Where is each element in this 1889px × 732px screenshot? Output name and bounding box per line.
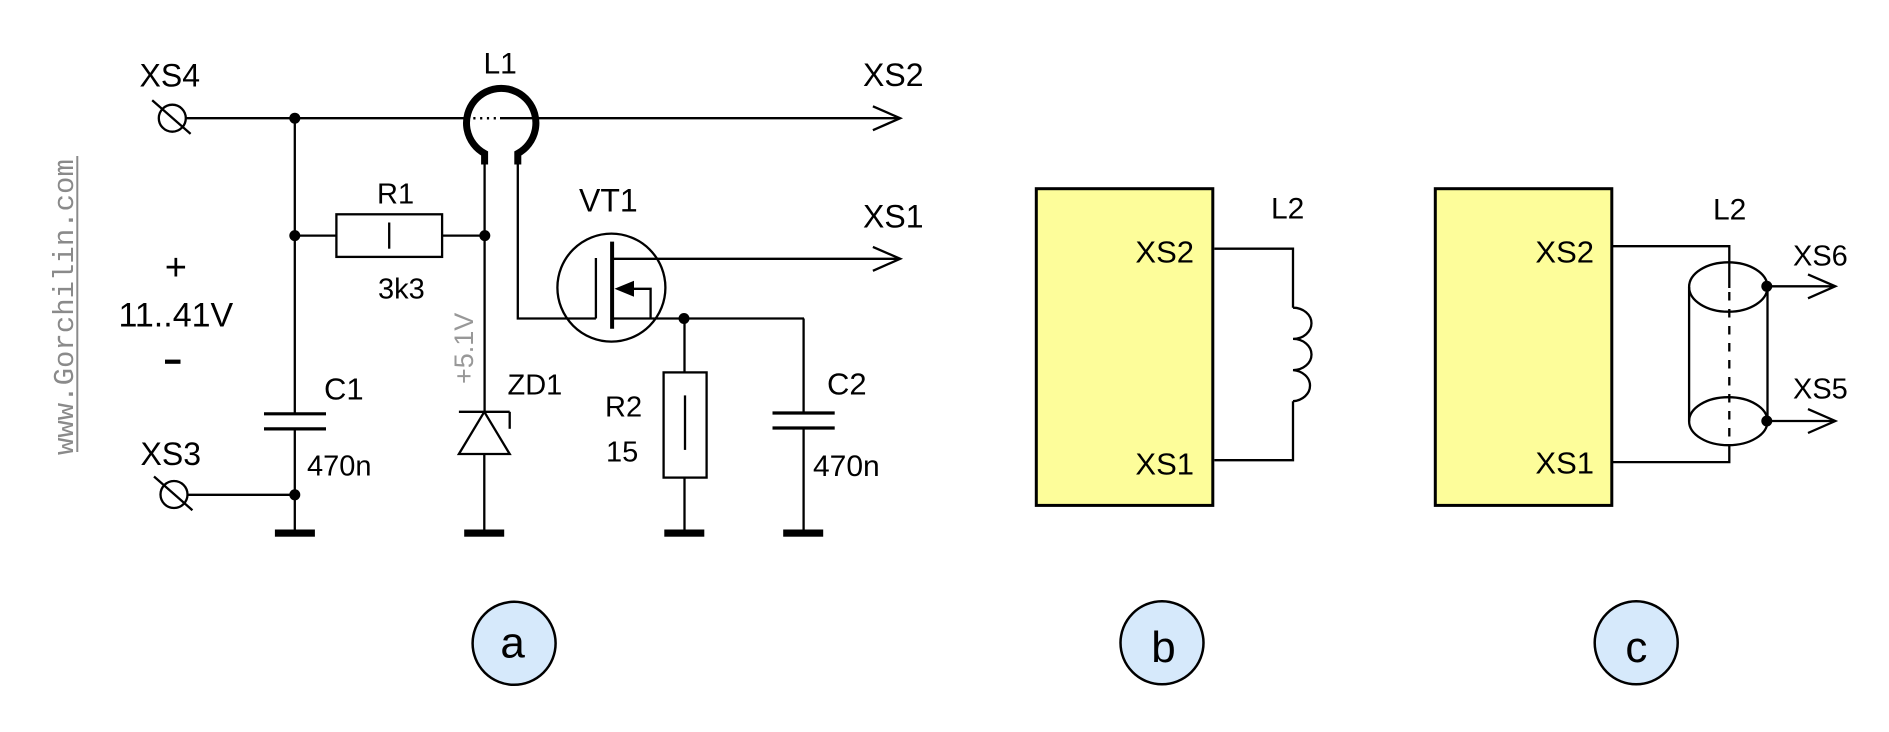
svg-text:XS3: XS3 [141,436,201,472]
wire L1 right leg to gate and on to C2 [518,158,596,319]
svg-text:VT1: VT1 [579,183,638,219]
connector XS3 [141,436,295,510]
connector XS4 [140,58,200,134]
svg-text:L1: L1 [484,48,517,81]
connector XS2 arrow [863,57,923,130]
ground C2 [783,530,823,537]
connector XS6 arrow [1767,241,1848,299]
svg-text:ZD1: ZD1 [508,370,563,402]
ground R2 [664,530,704,537]
label c [1595,601,1678,684]
zener diode ZD1 [459,370,562,530]
ground ZD1 [464,530,504,537]
ground C1 [275,530,315,537]
svg-text:XS1: XS1 [1135,447,1194,482]
svg-text:11..41V: 11..41V [119,296,234,334]
module box c [1435,189,1612,506]
svg-text:a: a [500,619,525,668]
svg-text:+: + [165,247,187,289]
node junction XS6 [1761,281,1772,292]
node junction R1 right [479,230,490,241]
wire top rail XS4 to XS2 [186,117,898,119]
wire left vertical to C1 [294,118,296,414]
svg-text:XS5: XS5 [1793,374,1848,406]
svg-text:C2: C2 [827,367,867,402]
capacitor C2 [773,319,880,530]
capacitor C1 [264,371,372,529]
watermark www.Gorchilin.com [49,156,82,455]
svg-text:C1: C1 [324,371,364,406]
module box b [1036,189,1213,506]
svg-text:XS2: XS2 [863,57,923,93]
node junction R1 left [289,230,300,241]
svg-text:L2: L2 [1713,194,1746,227]
node junction XS3 [289,489,300,500]
svg-text:L2: L2 [1271,193,1304,226]
svg-text:XS1: XS1 [863,199,923,235]
connector XS5 arrow [1767,374,1848,434]
svg-text:3k3: 3k3 [378,274,425,306]
supply label 11..41V [119,247,234,364]
transistor VT1 [557,183,665,342]
coil former L2 (c) [1613,194,1768,463]
wire drain to XS1 [612,258,898,260]
svg-text:470n: 470n [813,450,880,483]
svg-text:XS2: XS2 [1535,235,1594,270]
node junction XS4 rail [289,113,300,124]
connector XS1 arrow [863,199,923,271]
svg-text:XS2: XS2 [1135,235,1194,270]
inductor L2 (b) [1214,193,1311,461]
svg-text:R1: R1 [377,179,414,211]
svg-text:R2: R2 [605,391,642,423]
wire L1 left leg down to ZD1 [483,160,485,412]
node junction XS5 [1761,416,1772,427]
label a [473,602,556,685]
inductor L1 [467,48,536,165]
svg-text:XS4: XS4 [140,58,200,94]
svg-text:XS1: XS1 [1535,446,1594,481]
resistor R2 [605,319,707,530]
svg-text:470n: 470n [307,451,372,483]
wire source to C2 [612,317,804,319]
svg-text:15: 15 [606,436,638,468]
svg-text:XS6: XS6 [1793,241,1848,273]
svg-text:+5.1V: +5.1V [449,313,479,384]
resistor R1 [300,179,485,306]
node junction gate/source rail [679,313,690,324]
label b [1121,601,1204,684]
svg-text:b: b [1151,623,1175,672]
svg-text:c: c [1625,623,1647,672]
